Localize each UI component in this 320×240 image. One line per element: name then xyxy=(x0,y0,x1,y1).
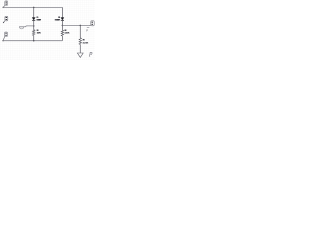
wire W2 (middle horizontal net to port) xyxy=(62,24,88,26)
diode D1 (zener, cathode down) xyxy=(32,18,35,21)
wire W3 (bottom horizontal net) xyxy=(3,40,62,42)
diode D2 (zener, cathode down) xyxy=(61,18,64,21)
svg-text:P: P xyxy=(86,28,88,32)
junction node at D1 stub xyxy=(33,7,35,9)
wire from test point to node xyxy=(19,25,34,28)
wire D1 cathode to R1 xyxy=(33,20,35,29)
svg-text:2.21K: 2.21K xyxy=(83,42,89,44)
svg-text:p: p xyxy=(88,50,93,57)
wire W1 corner down to D2 xyxy=(61,7,63,17)
port P4 (right) xyxy=(89,21,95,26)
svg-text:MMSZ4V7: MMSZ4V7 xyxy=(37,18,42,21)
junction node R1 bottom xyxy=(33,40,35,42)
wire stub down to D1 xyxy=(33,7,35,17)
port P2 (middle left, unconnected) xyxy=(3,16,8,23)
wire tap down to R3 xyxy=(79,25,81,37)
junction node mid right xyxy=(62,25,64,27)
wire R2 to bottom net corner xyxy=(61,36,63,41)
port P3 (bottom left) xyxy=(2,32,7,41)
ground symbol xyxy=(77,53,83,57)
wire R1 to bottom net xyxy=(33,36,35,41)
connector/test-point symbol (half-oval) xyxy=(19,27,23,29)
resistor R1 xyxy=(33,30,35,36)
port P1 (top left) xyxy=(3,1,8,8)
wire W1 (top horizontal net) xyxy=(3,6,62,8)
resistor R3 xyxy=(79,38,81,45)
junction node left-mid T xyxy=(33,25,35,27)
svg-text:2.21K: 2.21K xyxy=(65,32,70,34)
resistor R2 xyxy=(61,30,63,36)
svg-text:1.07K: 1.07K xyxy=(37,32,42,34)
svg-text:MMSZ4V7: MMSZ4V7 xyxy=(55,18,61,21)
junction node R3 tap xyxy=(80,25,82,27)
wire D2 cathode to R2 xyxy=(61,20,63,30)
wire R3 to ground xyxy=(79,45,81,54)
